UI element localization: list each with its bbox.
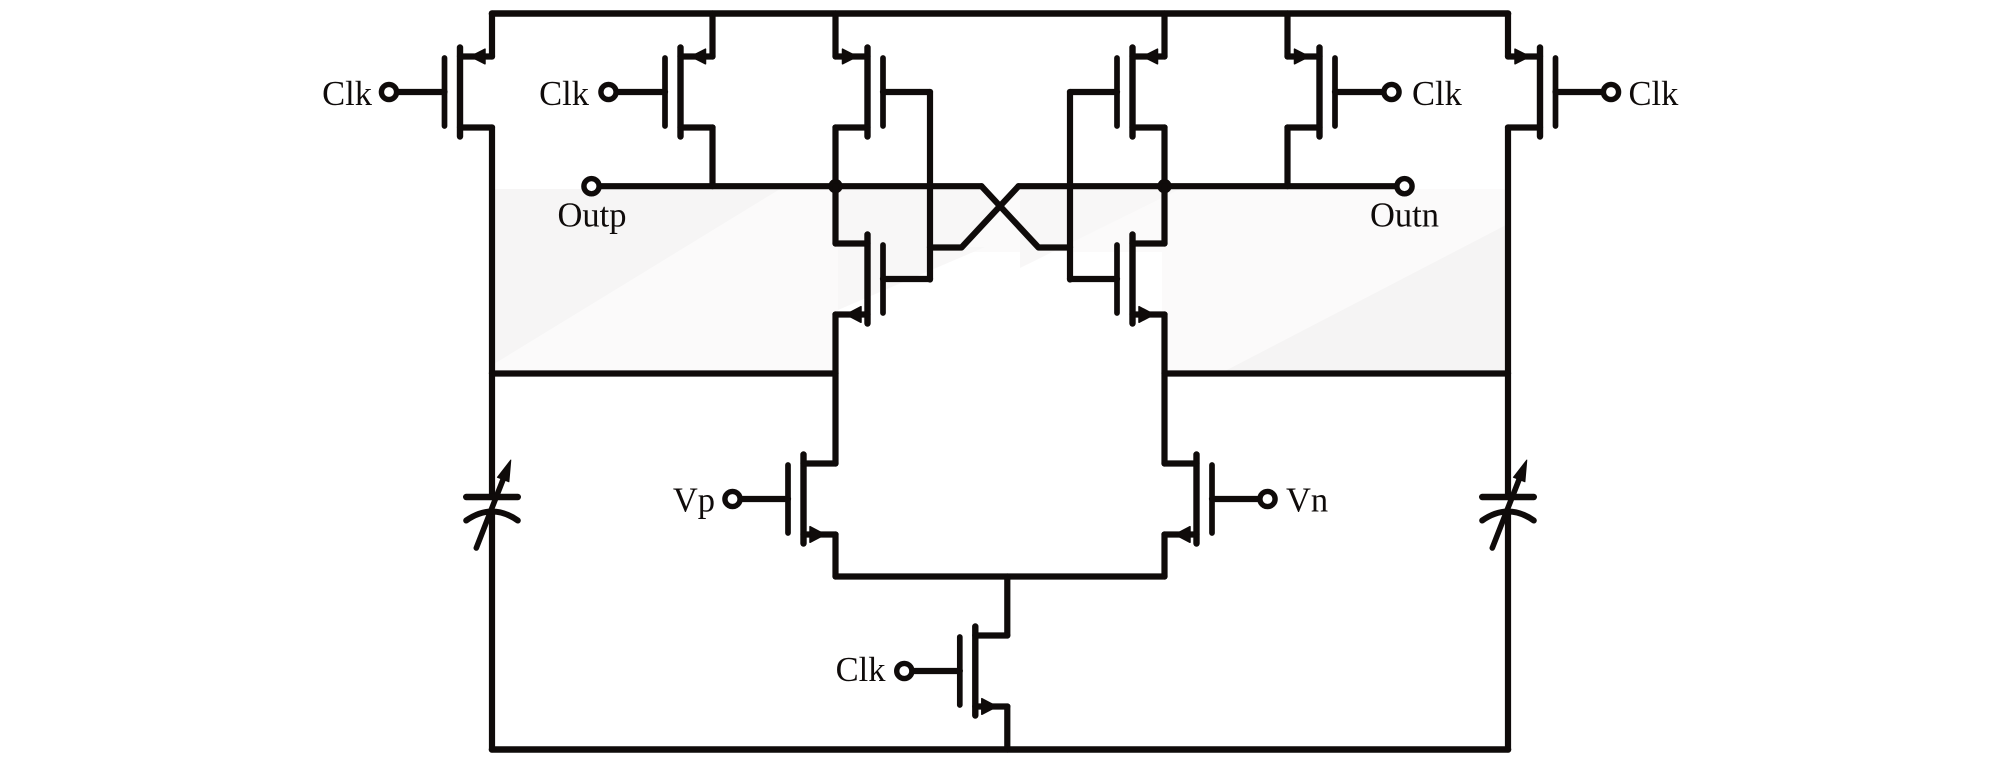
terminal Clk of M6 [1603, 84, 1618, 99]
wire left branch below capacitor [489, 513, 495, 750]
transistor NMOS latch left (M7) [836, 186, 931, 323]
label Vp [673, 482, 715, 520]
svg-text:Outn: Outn [1370, 197, 1439, 235]
transistor NMOS tail clock switch [910, 627, 1007, 750]
variable capacitor left [466, 460, 518, 548]
transistor PMOS reset switch left (M2) [614, 14, 713, 187]
svg-text:Clk: Clk [1629, 75, 1680, 113]
transistor NMOS input Vn [1165, 455, 1263, 577]
transistor PMOS latch right (M4) [1070, 14, 1165, 187]
svg-text:Clk: Clk [322, 75, 373, 113]
wire ground bottom rail [492, 746, 1508, 753]
wire VDD top rail [492, 10, 1508, 17]
junction node Outp [828, 179, 842, 193]
terminal Clk of M1 [381, 84, 396, 99]
wire right branch above capacitor [1505, 374, 1511, 498]
svg-text:Clk: Clk [1412, 75, 1463, 113]
wire node A horizontal [492, 370, 836, 376]
label Clk of M2 [539, 75, 590, 113]
transistor NMOS latch right (M8) [1070, 186, 1165, 323]
wire left branch above capacitor [489, 374, 495, 498]
label Clk of M6 [1629, 75, 1680, 113]
transistor NMOS input Vp [738, 455, 836, 577]
label Vn [1286, 482, 1328, 520]
label Outp [558, 197, 627, 235]
wire common source line [836, 573, 1165, 579]
junction node Outn [1157, 179, 1171, 193]
wire cross-coupled gate line left [927, 92, 933, 280]
label Clk of tail transistor [836, 651, 887, 689]
label Outn [1370, 197, 1439, 235]
wire Outp crossover diagonal [982, 186, 1071, 247]
wire Outp line [592, 183, 982, 189]
wire node B vertical (M8 source to Vn drain) [1161, 315, 1167, 464]
terminal Vn [1260, 491, 1275, 506]
transistor PMOS latch left (M3) [836, 14, 931, 187]
transistor PMOS reset switch right (M5) [1288, 14, 1387, 187]
wire Outn line [1019, 183, 1405, 189]
terminal Clk of M5 [1384, 84, 1399, 99]
label Clk of M5 [1412, 75, 1463, 113]
label Clk of M1 [322, 75, 373, 113]
wire node A vertical (M7 source to Vp drain) [832, 315, 838, 464]
terminal Vp [725, 491, 740, 506]
terminal Outn [1397, 179, 1412, 194]
transistor PMOS clock switch left (M1) [394, 14, 492, 374]
wire cross-coupled gate line right [1067, 92, 1073, 280]
terminal Clk of M2 [601, 84, 616, 99]
svg-text:Clk: Clk [836, 651, 887, 689]
wire right branch below capacitor [1505, 513, 1511, 750]
terminal Clk of tail transistor [897, 663, 912, 678]
svg-text:Clk: Clk [539, 75, 590, 113]
background sheen right [966, 189, 1506, 371]
variable capacitor right [1482, 460, 1534, 548]
wire tail drain vertical [1004, 577, 1010, 636]
svg-text:Vn: Vn [1286, 482, 1328, 520]
transistor PMOS clock switch right (M6) [1508, 14, 1606, 374]
svg-text:Outp: Outp [558, 197, 627, 235]
background sheen left [494, 189, 1034, 371]
svg-text:Vp: Vp [673, 482, 715, 520]
wire Outn crossover diagonal [930, 186, 1019, 247]
wire node B horizontal [1165, 370, 1509, 376]
terminal Outp [584, 179, 599, 194]
